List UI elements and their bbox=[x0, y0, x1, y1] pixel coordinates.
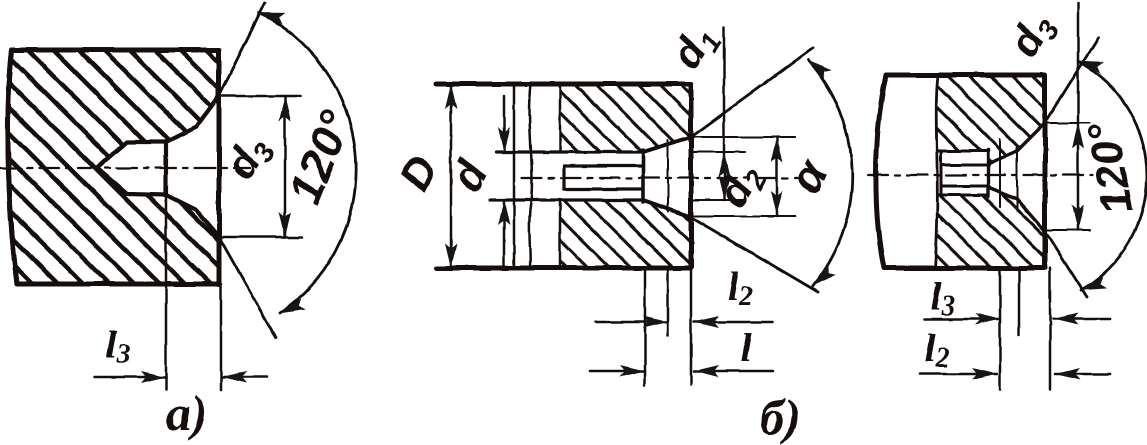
l3 extension lines a bbox=[166, 196, 221, 390]
thread major lines b bbox=[490, 152, 643, 200]
svg-text:а): а) bbox=[166, 385, 208, 441]
l3 and l2 extension lines v below bbox=[1000, 268, 1050, 389]
block a hatched body bbox=[8, 50, 219, 284]
l3 dimension line a bbox=[95, 376, 267, 379]
l2 dimension line v bbox=[920, 373, 1110, 376]
svg-text:120°: 120° bbox=[278, 103, 362, 211]
l2 extension through hole b bbox=[667, 140, 669, 212]
centre hole a profile bbox=[97, 96, 219, 237]
block b hatched body bbox=[560, 84, 691, 268]
svg-text:l2: l2 bbox=[924, 326, 949, 374]
hole v void bbox=[937, 123, 1045, 231]
centre hole a void bbox=[97, 96, 219, 237]
l2 and l extension lines b bbox=[645, 268, 691, 385]
d1 extension lines b bbox=[691, 152, 745, 200]
d2 dimension line b bbox=[776, 137, 779, 216]
svg-text:l3: l3 bbox=[105, 322, 130, 370]
figure v: section with threaded centre hole and 120 deg chamfer bbox=[868, 3, 1147, 389]
d3 extension lines a bbox=[215, 96, 302, 237]
figure a: shaft end section with centre hole, 120 deg protective chamfer bbox=[0, 3, 362, 441]
120deg upper line v bbox=[1045, 38, 1098, 123]
figure b: section with threaded centre hole, 60 deg cone bbox=[390, 16, 852, 445]
l dimension line b bbox=[590, 370, 773, 373]
svg-text:l: l bbox=[740, 325, 752, 370]
bore lines b bbox=[564, 166, 643, 189]
120deg angle upper line a bbox=[219, 3, 265, 96]
120deg arc v bbox=[1078, 61, 1147, 290]
hatch boundary b upper bbox=[559, 84, 562, 152]
d3 dimension line v bbox=[1077, 3, 1080, 230]
break line b wavy bbox=[529, 84, 532, 268]
d3 dimension line a bbox=[284, 96, 287, 237]
thread end vertical v bbox=[986, 150, 989, 197]
120deg angle lower line a bbox=[219, 237, 276, 338]
alpha arc b bbox=[808, 60, 852, 286]
l2 extension through hole v bbox=[1016, 148, 1018, 210]
svg-text:d2: d2 bbox=[708, 156, 773, 217]
thread end vertical b bbox=[641, 150, 645, 202]
bore lines v bbox=[941, 165, 989, 186]
svg-text:d: d bbox=[441, 152, 497, 200]
D dimension line bbox=[450, 84, 453, 268]
svg-text:120°: 120° bbox=[1079, 119, 1143, 218]
d dimension line bbox=[503, 96, 506, 266]
bore end vertical b bbox=[562, 166, 565, 189]
block b outline bbox=[436, 84, 691, 268]
l3 extension through hole v bbox=[999, 139, 1001, 207]
svg-text:D: D bbox=[390, 148, 448, 199]
break line b straight bbox=[513, 84, 516, 268]
svg-text:d1: d1 bbox=[662, 16, 728, 79]
svg-text:l2: l2 bbox=[727, 264, 752, 312]
block a outline re-stroke bbox=[8, 50, 219, 284]
block v hatched body bbox=[936, 75, 1045, 268]
centreline b bbox=[522, 177, 798, 179]
l2 dimension line b bbox=[596, 321, 773, 324]
l3 dimension line v bbox=[924, 318, 1110, 321]
chamfer edges v bbox=[1017, 123, 1045, 231]
hatch boundary b lower bbox=[559, 200, 562, 268]
svg-text:l3: l3 bbox=[930, 274, 955, 322]
block v outline bbox=[876, 75, 1045, 268]
120deg arc a bbox=[259, 13, 356, 313]
hole v left end bbox=[940, 151, 943, 195]
alpha angle upper line b bbox=[694, 48, 813, 135]
cone edges v bbox=[988, 151, 1017, 199]
alpha angle lower line b bbox=[694, 219, 818, 292]
d3 extension lines v bbox=[1044, 123, 1090, 230]
svg-text:б): б) bbox=[759, 389, 801, 445]
svg-text:d3: d3 bbox=[1000, 5, 1066, 67]
svg-text:α: α bbox=[778, 150, 838, 202]
svg-text:d3: d3 bbox=[216, 127, 282, 189]
thread lines v bbox=[938, 151, 988, 195]
centreline v bbox=[868, 174, 1092, 176]
cone edges b bbox=[643, 137, 691, 217]
centreline a bbox=[0, 167, 250, 169]
d1 dimension line b bbox=[723, 27, 726, 200]
d2 extension lines b bbox=[692, 137, 795, 216]
break line v wavy bbox=[935, 75, 938, 268]
hole b void bbox=[560, 137, 691, 217]
120deg lower line v bbox=[1045, 231, 1087, 297]
